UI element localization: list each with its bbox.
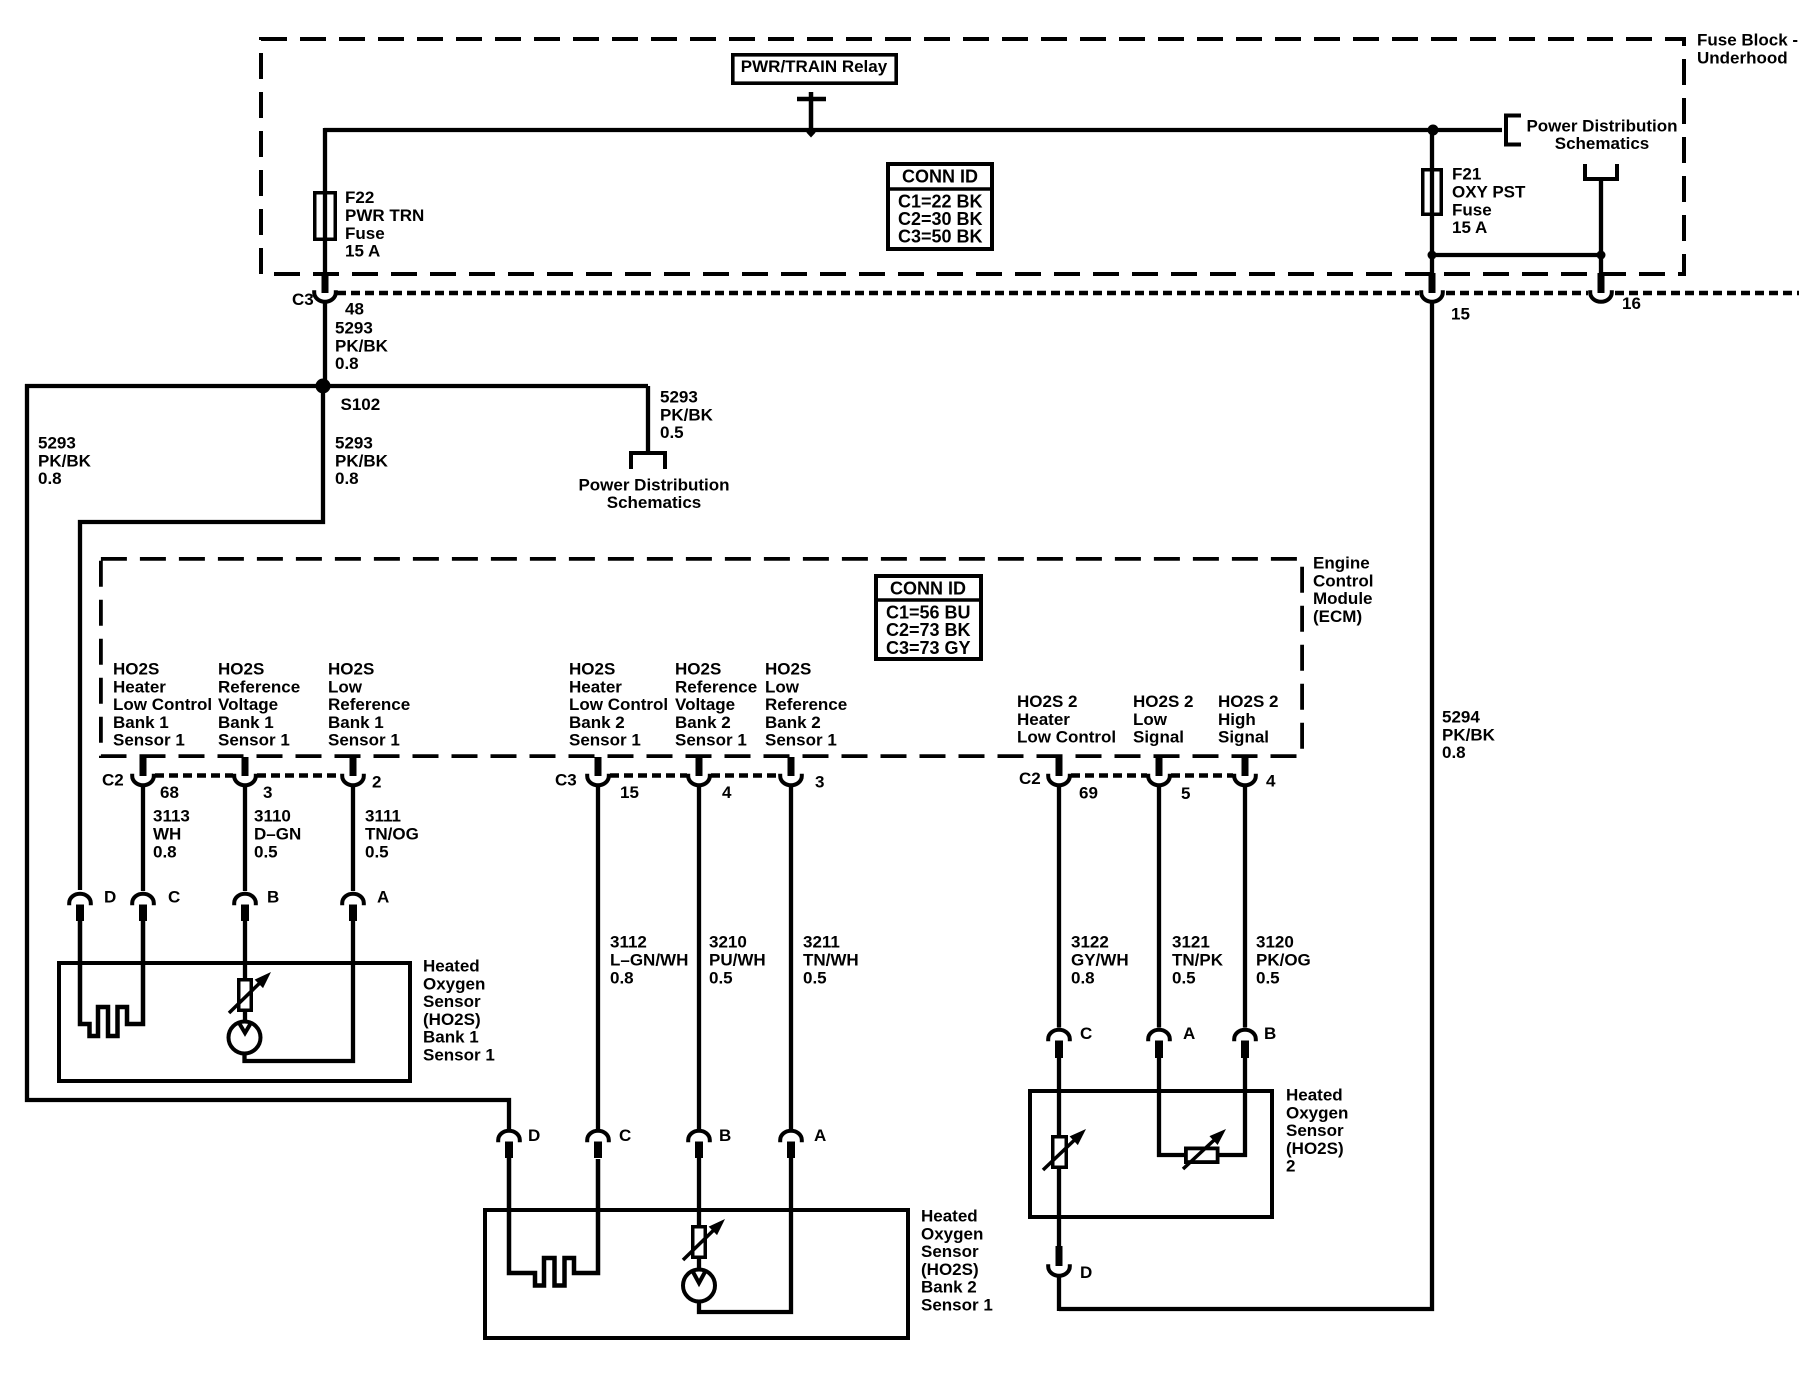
svg-text:Sensor: Sensor (423, 992, 481, 1011)
svg-text:15 A: 15 A (1452, 218, 1487, 237)
svg-text:Sensor 1: Sensor 1 (921, 1295, 993, 1314)
svg-text:OXY PST: OXY PST (1452, 183, 1526, 202)
svg-text:A: A (377, 888, 389, 907)
svg-text:C: C (1080, 1024, 1092, 1043)
svg-text:3112: 3112 (610, 933, 647, 952)
svg-text:C3: C3 (555, 771, 577, 790)
svg-text:3210: 3210 (709, 933, 747, 952)
svg-text:Sensor 1: Sensor 1 (765, 731, 837, 750)
svg-text:15 A: 15 A (345, 242, 380, 261)
svg-text:C3: C3 (292, 290, 314, 309)
svg-text:Signal: Signal (1133, 728, 1184, 747)
svg-text:Signal: Signal (1218, 728, 1269, 747)
svg-text:Heater: Heater (113, 677, 166, 696)
svg-text:PWR/TRAIN Relay: PWR/TRAIN Relay (741, 57, 888, 76)
svg-text:0.8: 0.8 (1442, 743, 1466, 762)
svg-text:Module: Module (1313, 589, 1373, 608)
svg-text:5293: 5293 (660, 388, 698, 407)
svg-text:PK/BK: PK/BK (335, 336, 389, 355)
svg-text:15: 15 (1451, 305, 1470, 324)
svg-text:0.5: 0.5 (1256, 968, 1280, 987)
svg-text:B: B (719, 1126, 731, 1145)
svg-text:Sensor 1: Sensor 1 (218, 731, 290, 750)
svg-text:PK/BK: PK/BK (1442, 725, 1496, 744)
svg-text:68: 68 (160, 783, 179, 802)
svg-text:Schematics: Schematics (607, 493, 702, 512)
svg-text:(HO2S): (HO2S) (1286, 1139, 1344, 1158)
svg-text:3120: 3120 (1256, 933, 1294, 952)
svg-text:Bank 2: Bank 2 (569, 713, 625, 732)
svg-text:3110: 3110 (254, 807, 291, 826)
svg-text:A: A (1183, 1024, 1195, 1043)
svg-text:C2: C2 (1019, 769, 1041, 788)
svg-text:5: 5 (1181, 784, 1190, 803)
svg-text:Engine: Engine (1313, 554, 1370, 573)
svg-text:PK/BK: PK/BK (335, 451, 389, 470)
svg-text:HO2S 2: HO2S 2 (1017, 692, 1077, 711)
svg-text:Reference: Reference (218, 677, 300, 696)
svg-text:Sensor: Sensor (1286, 1121, 1344, 1140)
svg-text:0.8: 0.8 (610, 968, 634, 987)
svg-text:Heater: Heater (1017, 710, 1070, 729)
svg-text:Low: Low (328, 677, 363, 696)
svg-text:Sensor 1: Sensor 1 (675, 731, 747, 750)
svg-text:0.5: 0.5 (1172, 968, 1196, 987)
svg-text:Low: Low (765, 677, 800, 696)
svg-text:Sensor 1: Sensor 1 (113, 731, 185, 750)
svg-text:Fuse Block -: Fuse Block - (1697, 31, 1798, 50)
svg-text:HO2S: HO2S (765, 660, 811, 679)
svg-text:0.5: 0.5 (365, 842, 389, 861)
svg-text:0.5: 0.5 (803, 968, 827, 987)
svg-text:Heater: Heater (569, 677, 622, 696)
svg-text:C3=73 GY: C3=73 GY (886, 638, 971, 658)
svg-text:0.8: 0.8 (335, 469, 359, 488)
svg-text:Low Control: Low Control (113, 695, 212, 714)
svg-text:4: 4 (722, 783, 732, 802)
svg-text:Reference: Reference (328, 695, 410, 714)
svg-text:HO2S: HO2S (328, 660, 374, 679)
svg-text:Low Control: Low Control (569, 695, 668, 714)
svg-text:PU/WH: PU/WH (709, 951, 766, 970)
svg-text:Schematics: Schematics (1555, 134, 1650, 153)
svg-text:B: B (1264, 1024, 1276, 1043)
svg-text:0.5: 0.5 (660, 423, 684, 442)
svg-text:Bank 1: Bank 1 (328, 713, 384, 732)
svg-text:CONN ID: CONN ID (902, 166, 978, 186)
svg-text:Oxygen: Oxygen (423, 974, 485, 993)
svg-text:Power Distribution: Power Distribution (578, 476, 729, 495)
svg-text:3211: 3211 (803, 933, 840, 952)
svg-text:Heated: Heated (423, 957, 480, 976)
svg-text:WH: WH (153, 825, 181, 844)
svg-text:0.5: 0.5 (254, 842, 278, 861)
svg-text:4: 4 (1266, 772, 1276, 791)
svg-text:GY/WH: GY/WH (1071, 951, 1129, 970)
svg-text:0.8: 0.8 (335, 354, 359, 373)
svg-text:L–GN/WH: L–GN/WH (610, 951, 688, 970)
svg-text:High: High (1218, 710, 1256, 729)
svg-text:Oxygen: Oxygen (921, 1224, 983, 1243)
svg-text:D: D (1080, 1263, 1092, 1282)
svg-text:0.8: 0.8 (1071, 968, 1095, 987)
svg-text:Bank 1: Bank 1 (423, 1028, 479, 1047)
svg-text:Voltage: Voltage (218, 695, 278, 714)
svg-text:16: 16 (1622, 294, 1641, 313)
svg-text:C2: C2 (102, 771, 124, 790)
svg-text:Low: Low (1133, 710, 1168, 729)
svg-text:TN/WH: TN/WH (803, 951, 859, 970)
svg-text:Low Control: Low Control (1017, 728, 1116, 747)
svg-text:Fuse: Fuse (1452, 200, 1492, 219)
svg-text:D: D (528, 1126, 540, 1145)
svg-text:5293: 5293 (335, 319, 373, 338)
svg-text:3111: 3111 (365, 807, 401, 826)
svg-text:C3=50 BK: C3=50 BK (898, 226, 983, 246)
svg-text:PK/BK: PK/BK (660, 405, 714, 424)
svg-text:C: C (168, 888, 180, 907)
svg-text:Sensor 1: Sensor 1 (328, 731, 400, 750)
svg-text:Underhood: Underhood (1697, 48, 1788, 67)
svg-text:CONN ID: CONN ID (890, 578, 966, 598)
svg-text:Sensor 1: Sensor 1 (569, 731, 641, 750)
svg-text:HO2S 2: HO2S 2 (1133, 692, 1193, 711)
svg-text:Sensor 1: Sensor 1 (423, 1045, 495, 1064)
svg-text:(ECM): (ECM) (1313, 607, 1362, 626)
svg-text:B: B (267, 888, 279, 907)
svg-text:Sensor: Sensor (921, 1242, 979, 1261)
svg-text:PK/BK: PK/BK (38, 451, 92, 470)
svg-text:2: 2 (372, 773, 381, 792)
svg-text:0.8: 0.8 (38, 469, 62, 488)
svg-text:TN/OG: TN/OG (365, 825, 419, 844)
svg-text:PWR TRN: PWR TRN (345, 206, 424, 225)
svg-text:Bank 2: Bank 2 (921, 1278, 977, 1297)
svg-text:D–GN: D–GN (254, 825, 301, 844)
svg-text:Bank 1: Bank 1 (218, 713, 274, 732)
svg-text:Reference: Reference (675, 677, 757, 696)
svg-text:HO2S: HO2S (113, 660, 159, 679)
svg-text:C: C (619, 1126, 631, 1145)
svg-text:0.8: 0.8 (153, 842, 177, 861)
svg-text:48: 48 (345, 300, 364, 319)
svg-text:5293: 5293 (38, 434, 76, 453)
svg-text:Heated: Heated (921, 1207, 978, 1226)
svg-text:Power Distribution: Power Distribution (1526, 117, 1677, 136)
svg-text:Oxygen: Oxygen (1286, 1103, 1348, 1122)
svg-text:Fuse: Fuse (345, 224, 385, 243)
svg-text:5294: 5294 (1442, 708, 1480, 727)
svg-text:S102: S102 (341, 395, 381, 414)
svg-text:PK/OG: PK/OG (1256, 951, 1311, 970)
svg-text:A: A (814, 1126, 826, 1145)
svg-text:Bank 2: Bank 2 (765, 713, 821, 732)
svg-text:3122: 3122 (1071, 933, 1109, 952)
svg-text:F22: F22 (345, 188, 374, 207)
svg-text:Bank 2: Bank 2 (675, 713, 731, 732)
svg-text:5293: 5293 (335, 434, 373, 453)
svg-text:F21: F21 (1452, 165, 1481, 184)
svg-text:3: 3 (815, 773, 824, 792)
svg-text:HO2S 2: HO2S 2 (1218, 692, 1278, 711)
svg-text:(HO2S): (HO2S) (423, 1010, 481, 1029)
svg-text:Voltage: Voltage (675, 695, 735, 714)
svg-text:Reference: Reference (765, 695, 847, 714)
svg-text:HO2S: HO2S (569, 660, 615, 679)
svg-text:3113: 3113 (153, 807, 190, 826)
svg-text:3: 3 (263, 783, 272, 802)
svg-text:0.5: 0.5 (709, 968, 733, 987)
svg-text:D: D (104, 888, 116, 907)
svg-text:Control: Control (1313, 571, 1373, 590)
svg-text:HO2S: HO2S (675, 660, 721, 679)
svg-text:TN/PK: TN/PK (1172, 951, 1224, 970)
svg-text:(HO2S): (HO2S) (921, 1260, 979, 1279)
svg-text:69: 69 (1079, 784, 1098, 803)
svg-text:HO2S: HO2S (218, 660, 264, 679)
svg-text:Heated: Heated (1286, 1086, 1343, 1105)
svg-text:Bank 1: Bank 1 (113, 713, 169, 732)
svg-text:2: 2 (1286, 1157, 1295, 1176)
svg-text:15: 15 (620, 783, 639, 802)
svg-text:3121: 3121 (1172, 933, 1210, 952)
